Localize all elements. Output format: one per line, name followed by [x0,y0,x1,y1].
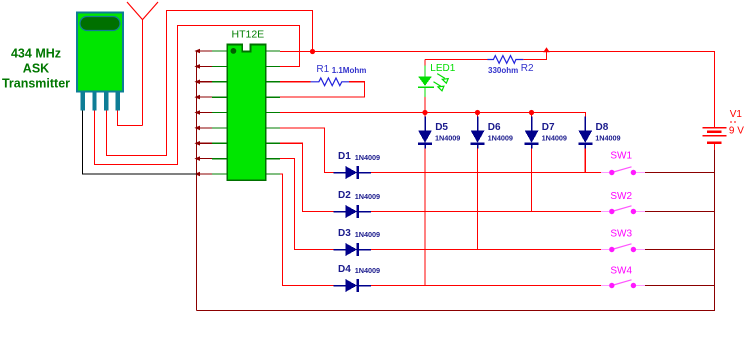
svg-text:SW1: SW1 [610,150,632,161]
svg-text:ASK: ASK [23,61,49,75]
svg-text:D1: D1 [338,151,351,162]
svg-text:1N4009: 1N4009 [435,134,460,143]
svg-text:D5: D5 [435,122,448,133]
svg-text:SW3: SW3 [610,228,632,239]
svg-text:330ohm: 330ohm [488,66,518,75]
svg-text:1N4009: 1N4009 [355,153,380,162]
svg-text:D7: D7 [542,122,555,133]
svg-text:D2: D2 [338,190,351,201]
svg-text:1N4009: 1N4009 [595,134,620,143]
svg-text:LED1: LED1 [430,63,455,74]
svg-text:R2: R2 [521,63,534,74]
svg-text:R1: R1 [316,64,329,75]
svg-text:1N4009: 1N4009 [542,134,567,143]
svg-text:D4: D4 [338,264,351,275]
svg-text:1.1Mohm: 1.1Mohm [332,66,367,75]
svg-text:D8: D8 [596,122,609,133]
svg-text:D6: D6 [488,122,501,133]
svg-text:SW2: SW2 [610,191,632,202]
svg-text:Transmitter: Transmitter [2,76,70,90]
svg-text:1N4009: 1N4009 [355,192,380,201]
svg-text:1N4009: 1N4009 [355,266,380,275]
svg-text:1N4009: 1N4009 [355,230,380,239]
svg-text:9 V: 9 V [729,126,744,137]
svg-text:V1: V1 [730,109,743,120]
svg-text:SW4: SW4 [610,265,632,276]
svg-text:434 MHz: 434 MHz [11,47,61,61]
svg-text:HT12E: HT12E [232,29,265,41]
svg-text:D3: D3 [338,228,351,239]
svg-text:1N4009: 1N4009 [488,134,513,143]
